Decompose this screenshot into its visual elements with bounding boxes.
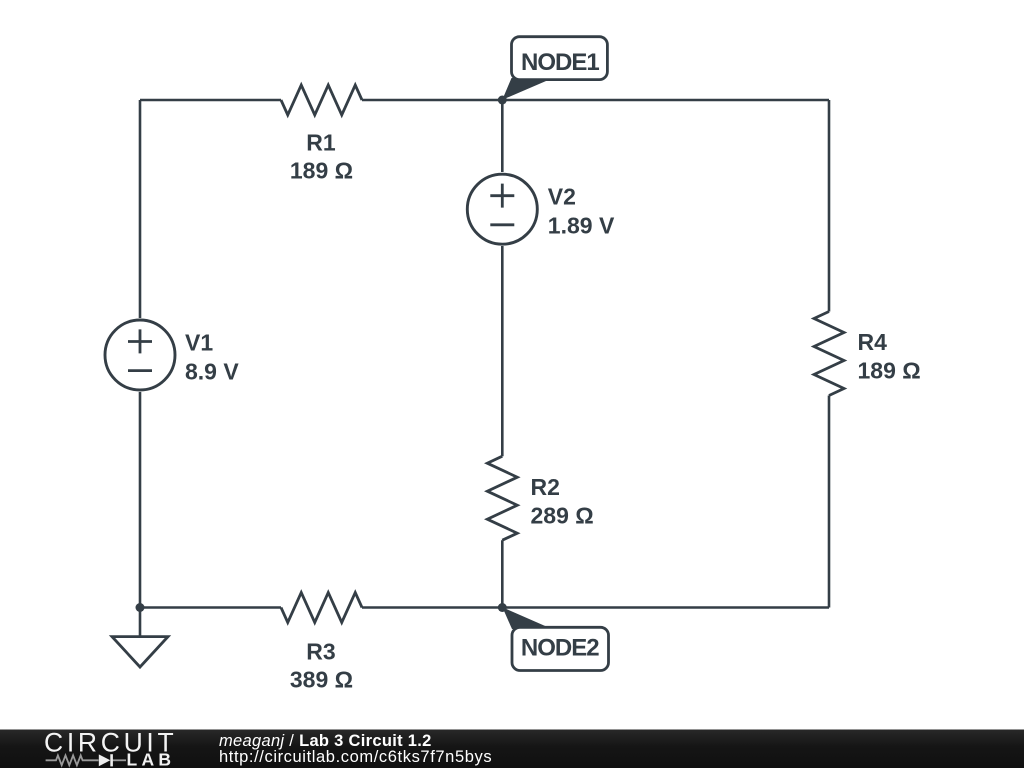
voltage source V1: [105, 320, 175, 390]
resistor R4: [814, 312, 844, 396]
node ground junction dot: [136, 603, 145, 612]
svg-text:189 Ω: 189 Ω: [858, 358, 921, 384]
svg-text:LAB: LAB: [127, 750, 176, 768]
logo resistor-diode doodle: [46, 755, 126, 765]
svg-text:189 Ω: 189 Ω: [290, 158, 353, 184]
wire middle top: [501, 100, 504, 172]
svg-text:289 Ω: 289 Ω: [531, 502, 594, 528]
svg-text:8.9 V: 8.9 V: [185, 358, 239, 384]
wire top-left horizontal: [140, 99, 281, 102]
wire right vertical upper: [828, 100, 831, 312]
svg-text:http://circuitlab.com/c6tks7f7: http://circuitlab.com/c6tks7f7n5bys: [219, 748, 492, 766]
node A junction dot NODE1: [498, 96, 507, 105]
voltage source V2: [467, 174, 537, 244]
wire middle between V2 and R2: [501, 246, 504, 456]
svg-text:R1: R1: [306, 130, 336, 156]
wire left vertical upper: [139, 100, 142, 318]
svg-text:R2: R2: [531, 474, 560, 500]
wire top-right horizontal: [362, 99, 829, 102]
wire middle bottom: [501, 540, 504, 607]
wire right vertical lower: [828, 396, 831, 608]
ground: [112, 637, 168, 667]
svg-text:R3: R3: [306, 639, 335, 665]
svg-text:1.89 V: 1.89 V: [548, 212, 615, 238]
wire ground stub: [139, 608, 142, 637]
svg-text:389 Ω: 389 Ω: [290, 667, 353, 693]
svg-text:NODE1: NODE1: [521, 49, 599, 76]
resistor R1: [281, 85, 362, 115]
wire bottom-left horizontal: [140, 606, 281, 609]
svg-text:V1: V1: [185, 329, 213, 355]
wire bottom-right horizontal: [362, 606, 829, 609]
svg-text:NODE2: NODE2: [521, 635, 599, 662]
node B junction dot NODE2: [498, 603, 507, 612]
svg-text:V2: V2: [548, 183, 576, 209]
node NODE2 callout: [502, 607, 608, 670]
svg-text:R4: R4: [858, 329, 888, 355]
resistor R3: [281, 593, 362, 623]
node NODE1 callout: [502, 37, 607, 100]
wire left vertical lower: [139, 392, 142, 608]
resistor R2: [487, 456, 517, 540]
